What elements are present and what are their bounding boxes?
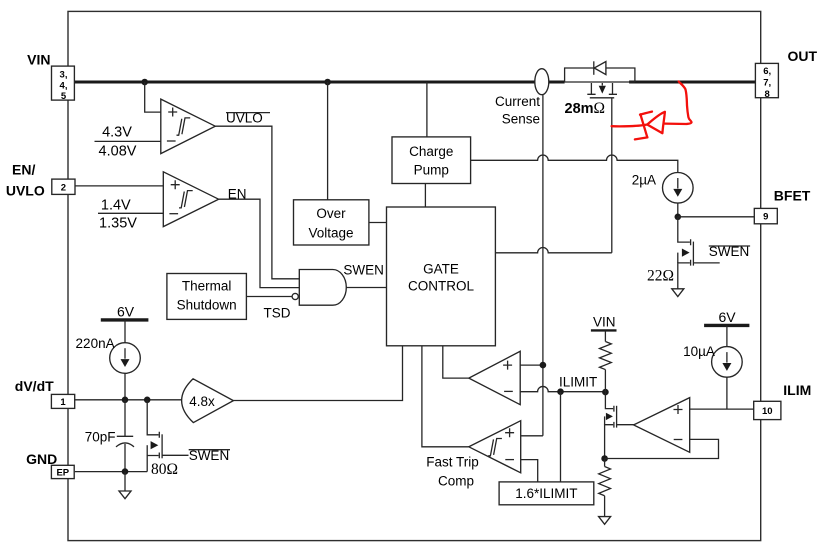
op-amp U6 ILIM amplifier (points left)	[634, 398, 690, 453]
wire rail to UVLO comparator + input	[145, 82, 161, 112]
svg-text:4.3V: 4.3V	[102, 124, 132, 140]
node ILIMIT branch to 1.6*ILIMIT	[557, 388, 564, 395]
transistor Q1 power FET on rail	[565, 68, 635, 98]
capacitor C1 70pF	[116, 400, 134, 472]
wire UVLO comparator output to AND gate	[215, 126, 299, 279]
svg-text:6,: 6,	[763, 66, 771, 77]
svg-text:Current: Current	[495, 94, 540, 109]
svg-text:220nA: 220nA	[76, 336, 115, 351]
svg-text:EN/: EN/	[12, 162, 35, 178]
wire GATE CONTROL to power FET gate (hop over sense line)	[495, 248, 611, 253]
svg-text:80Ω: 80Ω	[151, 461, 178, 478]
block 1.6*ILIMIT	[499, 482, 594, 505]
block Over Voltage	[294, 200, 369, 245]
svg-text:EP: EP	[56, 468, 69, 479]
wire ILIMIT node to 1.6*ILIMIT box	[560, 392, 562, 482]
svg-text:Thermal: Thermal	[182, 279, 232, 294]
svg-text:22Ω: 22Ω	[647, 268, 674, 285]
block GATE CONTROL	[387, 207, 496, 346]
wire fast trip + input to sense vertical	[521, 435, 543, 437]
svg-text:Shutdown: Shutdown	[177, 298, 237, 313]
ground below EP node	[119, 491, 131, 499]
svg-text:ILIMIT: ILIMIT	[559, 374, 597, 389]
svg-text:CONTROL: CONTROL	[408, 278, 474, 293]
node feedback at bottom resistor	[601, 455, 608, 462]
svg-text:ILIM: ILIM	[783, 382, 811, 398]
wire current sense vertical	[542, 94, 544, 435]
wire 2uA source to BFET node	[677, 203, 679, 217]
svg-text:4.8x: 4.8x	[189, 394, 215, 409]
wire AND gate output to GATE CONTROL	[346, 287, 386, 289]
svg-text:Charge: Charge	[409, 144, 453, 159]
diode body diode of power FET	[594, 61, 606, 75]
wire pin 1 dV/dT node	[75, 399, 182, 401]
gate U3 AND gate with inverted TSD input	[292, 270, 346, 306]
svg-text:2: 2	[61, 182, 66, 193]
transistor Q3 current limit FET	[605, 392, 634, 458]
svg-text:dV/dT: dV/dT	[15, 378, 54, 394]
svg-text:UVLO: UVLO	[6, 183, 45, 199]
svg-text:OUT: OUT	[788, 48, 818, 64]
wire fast trip output to GATE CONTROL	[422, 346, 469, 447]
op-amp U2 EN comparator	[163, 172, 218, 227]
transistor Q2 BFET pulldown	[678, 217, 720, 289]
wire ILIM amp + input to pin 10	[690, 408, 754, 410]
svg-text:GND: GND	[26, 451, 57, 467]
wire fast trip - input to 1.6*ILIMIT box	[521, 460, 538, 482]
node GND at cap bottom	[122, 468, 129, 475]
pin OUT (6,7,8)	[755, 63, 778, 99]
wire pin2 to EN comparator + input	[75, 185, 163, 187]
wire Charge Pump to GATE CONTROL	[424, 184, 426, 208]
wire rail to Charge Pump	[426, 82, 428, 137]
svg-text:5: 5	[61, 91, 67, 102]
svg-text:Sense: Sense	[502, 111, 540, 126]
svg-text:BFET: BFET	[774, 188, 811, 204]
svg-text:TSD: TSD	[264, 305, 291, 320]
node rail junction to UVLO comparator	[141, 79, 148, 86]
svg-text:VIN: VIN	[27, 52, 50, 68]
node BFET	[675, 214, 682, 221]
svg-text:1: 1	[60, 397, 66, 408]
svg-text:1.4V: 1.4V	[101, 198, 131, 214]
wire charge pump output to 2uA source (hops over two verticals)	[471, 155, 678, 173]
node sense net at + input	[540, 362, 547, 369]
svg-text:GATE: GATE	[423, 261, 459, 276]
wire GND node to ground symbol	[124, 472, 126, 491]
svg-text:8: 8	[765, 89, 770, 100]
pin ILIM (10)	[754, 401, 781, 419]
wire BFET node to pin 9	[678, 216, 755, 218]
block Charge Pump	[392, 137, 471, 184]
node rail junction to Over Voltage	[324, 79, 331, 86]
pin GND (EP)	[51, 465, 74, 478]
svg-text:VIN: VIN	[593, 315, 616, 330]
svg-text:Comp: Comp	[438, 473, 474, 488]
svg-text:2µA: 2µA	[632, 172, 656, 187]
current sense element on rail	[535, 69, 549, 95]
svg-text:6V: 6V	[117, 304, 135, 320]
wire current limit amp + input to sense net	[520, 364, 543, 366]
resistor R2 to ground	[599, 459, 611, 517]
wire Over Voltage to GATE CONTROL	[369, 222, 387, 224]
node dV/dT at discharge FET	[144, 397, 151, 404]
op-amp U1 UVLO comparator	[161, 99, 216, 154]
op-amp U4 current limit amplifier (points left)	[469, 351, 520, 404]
svg-text:4,: 4,	[60, 80, 68, 91]
pin VIN (3,4,5)	[52, 66, 75, 102]
block Thermal Shutdown	[167, 274, 247, 320]
wire ILIM amp - feedback to R2 top	[605, 439, 719, 458]
svg-text:3,: 3,	[60, 70, 68, 81]
current source I2 10uA	[712, 325, 743, 409]
wire rail to Over Voltage block	[327, 82, 329, 200]
svg-text:1.6*ILIMIT: 1.6*ILIMIT	[515, 486, 577, 501]
wire EP/GND net	[75, 471, 147, 473]
svg-text:10µA: 10µA	[683, 344, 715, 359]
op-amp U5 fast trip comparator (points left)	[469, 421, 521, 473]
supply bar 6V left	[101, 318, 149, 321]
pin dV/dT (1)	[51, 394, 74, 408]
svg-text:7,: 7,	[763, 77, 771, 88]
svg-text:4.08V: 4.08V	[99, 143, 137, 159]
svg-text:6V: 6V	[718, 309, 736, 325]
svg-text:Fast Trip: Fast Trip	[426, 454, 479, 469]
current source I3 220nA	[110, 320, 141, 400]
current source I1 2uA	[663, 173, 694, 204]
ground below BFET transistor	[672, 289, 684, 297]
svg-text:Over: Over	[316, 206, 346, 221]
transistor Q4 dV/dT discharge FET	[147, 400, 188, 472]
wire 4.3V/4.08V threshold bar to - input	[95, 140, 161, 142]
node dV/dT at 220nA/cap	[122, 397, 129, 404]
wire rail thin segment under power FET	[565, 81, 635, 83]
wire EN comparator output to AND gate	[219, 199, 300, 287]
svg-text:28mΩ: 28mΩ	[565, 100, 606, 117]
svg-text:Pump: Pump	[414, 163, 449, 178]
device outline border	[68, 11, 761, 540]
svg-text:9: 9	[763, 212, 768, 223]
wire TSD thermal shutdown to AND gate bubble	[246, 296, 292, 298]
resistor R1 from VIN	[600, 330, 612, 392]
supply bar VIN	[591, 329, 617, 331]
node ILIMIT at VIN resistor	[602, 389, 609, 396]
pin EN/UVLO (2)	[52, 179, 75, 194]
wire ILIMIT net (hop over sense vertical)	[520, 386, 605, 391]
wire 1.4V/1.35V threshold bar to - input	[98, 212, 163, 214]
amplifier 4.8x dV/dT	[182, 379, 234, 423]
pin BFET (9)	[754, 208, 777, 223]
wire current limit amp output to GATE CONTROL	[443, 346, 469, 378]
wire 4.8x output to GATE CONTROL	[233, 346, 402, 401]
red annotation hand-drawn zener scribble	[612, 82, 692, 140]
wire VIN-OUT main rail	[74, 81, 755, 84]
supply bar 6V	[704, 324, 749, 327]
svg-text:Voltage: Voltage	[308, 225, 353, 240]
svg-text:10: 10	[762, 406, 773, 417]
wire power FET gate vertical	[611, 98, 613, 253]
svg-text:1.35V: 1.35V	[99, 216, 137, 232]
ground below R2	[599, 517, 611, 525]
svg-text:SWEN: SWEN	[343, 262, 384, 277]
svg-text:70pF: 70pF	[85, 430, 116, 445]
